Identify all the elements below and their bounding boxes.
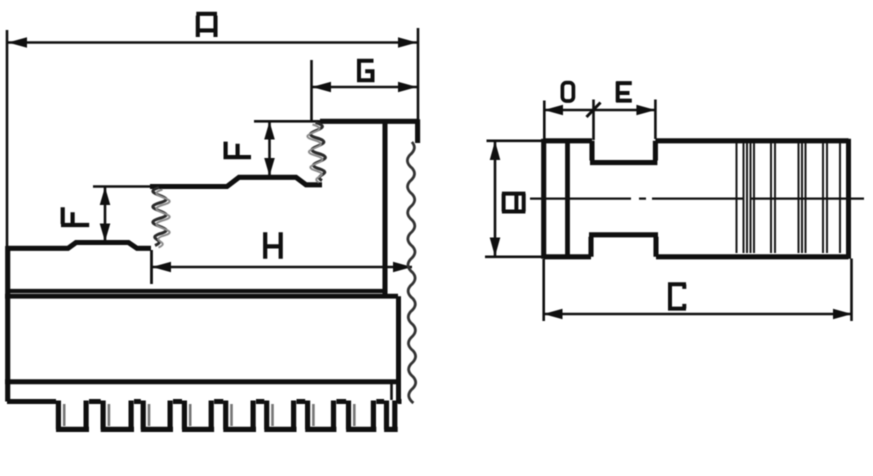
extension: notch left wall up [592,100,595,141]
dimension B line [494,142,497,256]
part right edge [846,139,851,259]
top step surface thick [320,119,418,124]
label H [265,232,281,258]
top step extension line thin (for F) [254,120,320,123]
label B (rotated) [502,194,526,212]
right edge top corner vertical [415,119,420,143]
tooth slot 5 echo line [230,404,233,426]
E right arrow [636,105,655,116]
middle step surface thick with raised land [150,177,322,186]
dimension G line [312,86,417,89]
base block right edge [396,296,401,403]
serration hatch lines on clamping area [737,143,841,253]
extension line right (A/G) [417,28,420,121]
C extension left [542,259,545,321]
dimension H right arrow [393,262,412,273]
label E [616,82,632,102]
tooth slot 8 [346,401,376,430]
dimension G left arrow [312,82,331,93]
D left arrow [544,105,563,116]
C right arrow [833,309,852,320]
base block bottom edge [5,379,398,384]
tooth slot 3 [141,401,173,430]
F top down arrow [264,158,275,176]
F bottom up arrow [100,187,111,205]
tooth slot 4 echo line [189,404,192,426]
tooth slot 9 [384,401,398,430]
wavy break line between bottom and middle step (serration indication) [153,123,416,404]
dimension H left arrow [152,262,171,273]
tooth slot 2 [101,401,134,430]
label F bottom (rotated) [61,207,89,225]
part left edge [541,139,546,259]
wavy break line between middle and top step [310,123,325,181]
vertical divider of stepped part [382,122,387,295]
dimension F bottom line [104,187,107,242]
B extension bottom [485,255,542,258]
base/profile left edge [5,246,10,402]
oblique tick at D/E boundary [587,103,601,118]
top notch [590,141,657,163]
dimension F top line [268,122,271,177]
long wavy clamping-face line at right edge [407,142,415,403]
tooth slot 2 echo line [108,404,111,426]
bottom notch [589,235,658,257]
bottom step surface thick with raised land [7,243,151,249]
extension: part left edge up [543,101,546,140]
dimension G right arrow [398,82,417,93]
centerline axis [530,197,864,199]
tooth slot 6 echo line [271,404,274,426]
tooth slot 6 [264,401,296,430]
extension line left (A) [6,30,9,246]
F bottom down arrow [100,224,111,242]
dimension C line [544,313,853,316]
B bottom arrow [490,238,501,257]
label F top (rotated) [224,142,252,158]
dimension D/E line [544,109,655,112]
wavy echo left [156,190,169,248]
B top arrow [490,141,501,160]
H extension vertical [150,250,153,284]
base block top edge [5,294,398,299]
tooth slot 7 [305,401,336,430]
dimension A line [8,41,417,44]
strip right thin vertical [390,384,393,400]
middle step extension line thin (for F) [93,185,150,188]
jaw bottom face line segments [7,399,402,404]
label A [196,14,217,37]
tooth slot 4 [182,401,214,430]
label C [670,284,686,308]
dimension A left arrow [8,37,27,48]
tooth slot 1 [56,401,89,430]
wavy echo mid [307,125,322,183]
stepped part bottom line [8,289,387,293]
part outline bottom edge [544,254,849,259]
extension line G left [310,60,313,120]
C extension right [850,259,853,322]
tooth slot 8 echo line [353,404,356,426]
B extension top [487,140,542,143]
internal step line [565,141,570,257]
part outline top edge [544,138,849,143]
tooth slot 1 echo line [63,404,66,426]
dimension A right arrow [398,37,417,48]
tooth slot 7 echo line [312,404,315,426]
F top up arrow [264,122,275,140]
dimension H line [152,266,412,269]
label D [562,83,573,101]
tooth slot 3 echo line [148,404,151,426]
label G [359,61,374,80]
tooth slot 5 [223,401,256,430]
extension: notch right wall up [654,100,657,140]
C left arrow [544,309,563,320]
serrated bottom teeth of base block [7,401,402,430]
